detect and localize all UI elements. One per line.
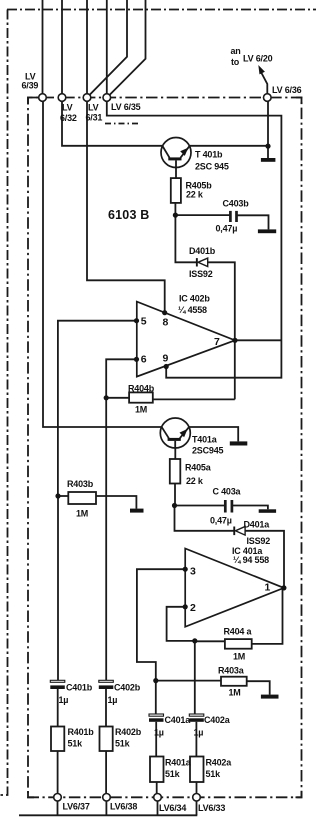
svg-text:C401b: C401b xyxy=(66,683,93,693)
svg-text:LV 6/35: LV 6/35 xyxy=(111,102,141,112)
svg-text:1µ: 1µ xyxy=(59,695,69,705)
svg-text:3: 3 xyxy=(190,566,196,578)
svg-text:1µ: 1µ xyxy=(194,728,204,738)
svg-text:6/31: 6/31 xyxy=(86,113,103,123)
svg-text:R402b: R402b xyxy=(115,727,142,737)
svg-text:8: 8 xyxy=(163,317,169,329)
svg-text:T401a: T401a xyxy=(192,435,218,445)
svg-text:LV: LV xyxy=(62,103,73,113)
svg-text:22 k: 22 k xyxy=(186,476,204,486)
svg-text:1M: 1M xyxy=(233,652,245,662)
svg-text:R405a: R405a xyxy=(185,463,212,473)
svg-text:9: 9 xyxy=(163,353,169,365)
svg-text:C402a: C402a xyxy=(204,715,231,725)
svg-text:1M: 1M xyxy=(135,405,147,415)
svg-text:R403a: R403a xyxy=(218,666,245,676)
svg-text:¼ 94 558: ¼ 94 558 xyxy=(233,555,269,565)
svg-text:R404 a: R404 a xyxy=(224,627,253,637)
svg-text:51k: 51k xyxy=(206,769,222,779)
svg-text:1µ: 1µ xyxy=(108,695,118,705)
svg-text:6/32: 6/32 xyxy=(60,113,77,123)
svg-text:C402b: C402b xyxy=(114,683,141,693)
svg-text:LV 6/36: LV 6/36 xyxy=(272,85,302,95)
svg-text:5: 5 xyxy=(141,316,147,328)
svg-text:1µ: 1µ xyxy=(154,728,164,738)
svg-text:2SC945: 2SC945 xyxy=(192,446,224,456)
svg-text:6103 B: 6103 B xyxy=(108,208,150,222)
svg-text:LV6/37: LV6/37 xyxy=(63,802,90,812)
svg-text:LV6/34: LV6/34 xyxy=(159,803,186,813)
svg-text:6/39: 6/39 xyxy=(22,81,39,91)
svg-text:2: 2 xyxy=(190,602,196,614)
svg-text:22 k: 22 k xyxy=(186,190,204,200)
svg-text:R403b: R403b xyxy=(67,479,94,489)
svg-text:ISS92: ISS92 xyxy=(189,269,213,279)
svg-text:0,47µ: 0,47µ xyxy=(216,224,238,234)
svg-text:1M: 1M xyxy=(76,509,88,519)
svg-text:1: 1 xyxy=(265,582,271,594)
svg-text:D401a: D401a xyxy=(244,519,271,529)
svg-text:51k: 51k xyxy=(165,769,181,779)
svg-text:C403b: C403b xyxy=(223,199,250,209)
svg-text:LV 6/20: LV 6/20 xyxy=(243,54,273,64)
svg-text:R401a: R401a xyxy=(165,758,192,768)
svg-text:1M: 1M xyxy=(229,688,241,698)
svg-text:R404b: R404b xyxy=(128,384,155,394)
svg-text:LV6/33: LV6/33 xyxy=(198,803,225,813)
svg-text:R402a: R402a xyxy=(206,758,233,768)
svg-text:0,47µ: 0,47µ xyxy=(210,516,232,526)
svg-text:51k: 51k xyxy=(68,739,84,749)
svg-text:D401b: D401b xyxy=(189,246,216,256)
svg-text:2SC 945: 2SC 945 xyxy=(195,162,229,172)
svg-text:an: an xyxy=(231,46,241,56)
svg-text:¼ 4558: ¼ 4558 xyxy=(178,305,207,315)
svg-text:to: to xyxy=(231,57,240,67)
svg-text:7: 7 xyxy=(214,336,220,348)
svg-text:C 403a: C 403a xyxy=(213,487,242,497)
svg-text:R401b: R401b xyxy=(68,727,95,737)
svg-text:6: 6 xyxy=(141,354,147,366)
svg-text:ISS92: ISS92 xyxy=(247,536,271,546)
svg-text:C401a: C401a xyxy=(165,715,192,725)
svg-text:51k: 51k xyxy=(115,739,131,749)
svg-text:T 401b: T 401b xyxy=(195,150,223,160)
svg-text:LV: LV xyxy=(88,103,99,113)
svg-text:LV6/38: LV6/38 xyxy=(110,802,137,812)
svg-text:IC 402b: IC 402b xyxy=(179,294,210,304)
